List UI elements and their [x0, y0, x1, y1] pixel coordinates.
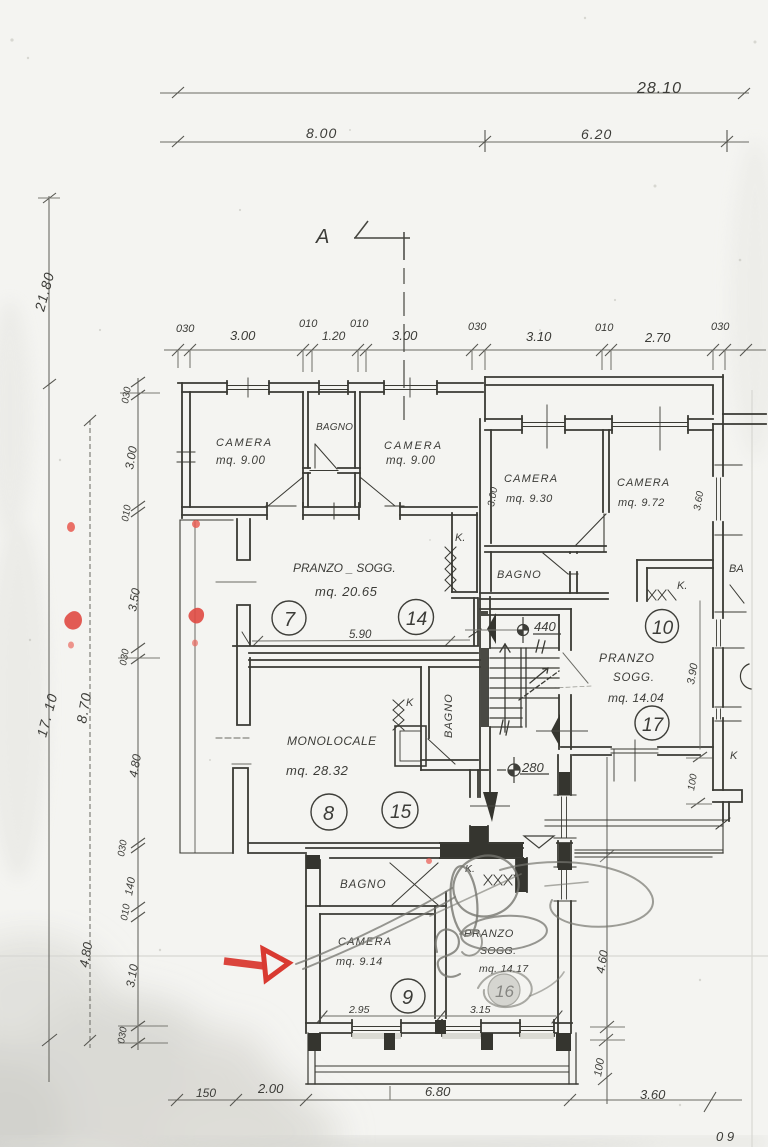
connector dark walls [440, 770, 527, 892]
svg-text:K: K [406, 697, 414, 709]
svg-text:CAMERA: CAMERA [504, 473, 558, 485]
horizontal line through T3 arrow [470, 805, 510, 807]
5.90 internal dimension line [252, 636, 470, 646]
kitchen hatch monolocale [393, 700, 404, 730]
top chain above plan [164, 344, 766, 372]
faint scan fold line [0, 955, 768, 957]
wing terrace [306, 1033, 578, 1084]
pier stairwell west [481, 648, 489, 727]
svg-text:CAMERA: CAMERA [384, 440, 443, 452]
svg-text:mq. 9.14: mq. 9.14 [336, 956, 383, 968]
circled 10 [646, 610, 679, 643]
scribble R glyph [436, 929, 460, 976]
scan noise bottom-left mottle [0, 935, 340, 1147]
svg-text:BAGNO: BAGNO [443, 693, 455, 738]
dark wall piers [306, 611, 572, 1051]
right rooms north wall [485, 405, 713, 450]
svg-text:28.10: 28.10 [636, 80, 682, 97]
svg-text:MONOLOCALE: MONOLOCALE [287, 734, 377, 748]
svg-text:3.00: 3.00 [392, 328, 418, 343]
circled 17 [635, 706, 669, 740]
window right camera [384, 386, 437, 390]
red blob 3 [68, 642, 74, 649]
K hatch pranzo dx [648, 590, 676, 600]
section arrow A [355, 221, 368, 238]
door swing camera 9.72 [576, 514, 606, 551]
right vertical dimension chain 4.60/100 [590, 757, 625, 1104]
dimension line 8.00 / 6.20 [160, 130, 749, 152]
left vertical dimension line 21.80/17.10 [38, 193, 60, 1082]
wing east wall [554, 755, 576, 1033]
scribble long diagonals [296, 888, 455, 969]
svg-text:8: 8 [323, 803, 334, 825]
svg-text:0 9: 0 9 [716, 1129, 734, 1144]
red blob 2 [64, 611, 82, 629]
wing outer west wall [306, 855, 320, 1033]
bagno sx walls [303, 392, 360, 507]
svg-text:mq. 9.72: mq. 9.72 [618, 497, 665, 509]
wing dim tick slashes [317, 1011, 562, 1023]
K hatch pranzo-sogg [445, 547, 456, 591]
landing west wall (right block west wall + stairwell west wall) [480, 419, 491, 797]
left outer wall [177, 383, 195, 518]
svg-text:5.90: 5.90 [349, 629, 372, 641]
camera row bottom wall [182, 503, 477, 519]
scribble loop over 16 [478, 971, 532, 1007]
svg-text:6.80: 6.80 [425, 1084, 451, 1099]
svg-text:mq. 9.00: mq. 9.00 [216, 455, 266, 467]
east outer wall [700, 414, 751, 790]
svg-text:15: 15 [390, 802, 412, 823]
svg-text:2.70: 2.70 [644, 330, 671, 345]
svg-text:mq. 14.17: mq. 14.17 [479, 963, 529, 975]
pranzo dx south wall [561, 740, 713, 781]
red blob 4 [192, 520, 200, 528]
svg-text:mq. 9.30: mq. 9.30 [506, 493, 553, 505]
MAIN WALLS [177, 375, 766, 1084]
svg-text:17: 17 [642, 715, 665, 736]
svg-text:010: 010 [299, 318, 318, 330]
wing bagno door swings [390, 863, 438, 905]
red blob 6 [192, 640, 198, 647]
top-right stub wall to page edge [713, 414, 766, 430]
window shading wing south [352, 1033, 554, 1039]
left vertical detailed chain [118, 377, 168, 1050]
wing divider wall [435, 892, 446, 1018]
left vertical dimension line 8.70/4.80 [84, 415, 96, 1048]
scribble oval upper [444, 846, 528, 926]
svg-text:030: 030 [176, 323, 195, 335]
svg-text:7: 7 [284, 609, 296, 631]
stair black triangles [487, 613, 496, 644]
svg-text:150: 150 [196, 1086, 216, 1100]
circled 15 [382, 792, 418, 828]
svg-text:030: 030 [468, 321, 487, 333]
level marker 440 [465, 617, 561, 643]
faint right page edge line [751, 390, 753, 1147]
svg-text:3.00: 3.00 [230, 328, 256, 343]
balcony west edge [180, 520, 233, 853]
svg-text:030: 030 [711, 321, 730, 333]
circled 14 [399, 600, 434, 635]
wing inner south wall [306, 1016, 572, 1036]
svg-text:9: 9 [402, 987, 413, 1009]
right side wall down to wing [575, 852, 723, 854]
horizontal line through T2 arrow [536, 730, 588, 732]
svg-text:K: K [730, 750, 738, 762]
svg-text:PRANZO _ SOGG.: PRANZO _ SOGG. [293, 561, 396, 575]
red arrow [224, 949, 289, 980]
svg-text:K.: K. [455, 532, 465, 544]
door swing camera dx (left block) [360, 477, 404, 506]
pier connector elbow [470, 826, 488, 844]
svg-text:BAGNO: BAGNO [497, 569, 542, 581]
svg-text:280: 280 [521, 760, 544, 775]
svg-text:6.20: 6.20 [581, 126, 612, 142]
svg-text:BAGNO: BAGNO [316, 422, 353, 433]
svg-text:CAMERA: CAMERA [617, 477, 670, 489]
wing K hatch [484, 875, 522, 885]
kitchen sink box monolocale [395, 726, 426, 766]
window bagno [319, 386, 348, 390]
svg-text:010: 010 [350, 318, 369, 330]
wing bagno south wall [306, 906, 446, 914]
top outer wall left block [178, 378, 483, 397]
camera 9.30 bottom wall [485, 546, 606, 552]
svg-text:SOGG.: SOGG. [613, 672, 655, 684]
scribble extra diagonal [430, 874, 521, 916]
window left camera [227, 386, 269, 390]
red blob 5 [188, 608, 204, 624]
bottom dimension line [168, 1086, 742, 1112]
door swing bagno dx [543, 553, 578, 574]
balcony inner wall (west wall of pranzo/monolocale) [216, 519, 256, 853]
top outer wall right block [485, 375, 723, 421]
stair treads [490, 640, 559, 735]
scribble tail right of 16 [530, 972, 564, 996]
door swing bagno sx [315, 444, 337, 469]
stairwell walls [480, 609, 571, 749]
dimension line 28.10 [160, 87, 750, 99]
svg-text:3.15: 3.15 [470, 1004, 491, 1016]
circled 8 [311, 794, 347, 830]
pranzo-sogg bottom wall [233, 646, 488, 667]
divider between right cameras [603, 430, 609, 512]
svg-text:BA: BA [729, 563, 744, 575]
svg-text:K.: K. [677, 580, 687, 592]
svg-text:PRANZO: PRANZO [599, 651, 655, 665]
svg-text:mq. 14.04: mq. 14.04 [608, 691, 664, 705]
svg-text:1.20: 1.20 [322, 329, 346, 343]
svg-text:CAMERA: CAMERA [216, 437, 273, 449]
svg-text:A: A [315, 226, 329, 248]
monolocale bottom wall [249, 843, 572, 853]
circled 9 [391, 979, 425, 1013]
wing top wall [306, 848, 523, 858]
scribble tall loop [447, 865, 480, 937]
right wall 100 mini chain [686, 752, 712, 808]
svg-text:BAGNO: BAGNO [340, 879, 387, 891]
svg-text:440: 440 [534, 619, 556, 634]
wing corner piers [306, 855, 320, 869]
svg-text:mq. 28.32: mq. 28.32 [286, 763, 349, 778]
svg-text:010: 010 [595, 322, 614, 334]
circled 7 [272, 601, 306, 635]
svg-text:16: 16 [495, 982, 514, 1001]
svg-text:mq. 20.65: mq. 20.65 [315, 584, 378, 599]
kitchen nook pranzo dx [637, 560, 713, 601]
svg-text:3.10: 3.10 [526, 329, 552, 344]
red blob 1 [67, 522, 75, 532]
monolocale east wall / bagno mono [421, 667, 488, 770]
svg-text:2.95: 2.95 [348, 1004, 370, 1016]
door swing bagno monolocale [428, 739, 455, 764]
scribble wall crossing [545, 882, 588, 886]
door swing camera sx [266, 477, 303, 506]
svg-text:8.00: 8.00 [306, 125, 337, 141]
svg-text:10: 10 [652, 618, 674, 639]
open door triangle at entry [524, 836, 554, 848]
red dot wing [426, 858, 432, 864]
bottom right balcony stub [545, 790, 742, 857]
pranzo-sogg east wall and K nook [452, 513, 481, 645]
circled 16 smudged [488, 974, 520, 1006]
door swing stair hall to pranzo dx [563, 653, 588, 683]
svg-text:14: 14 [406, 609, 427, 630]
scribble flat oval around PRANZO [460, 913, 548, 953]
svg-text:mq. 9.00: mq. 9.00 [386, 455, 436, 467]
bagno dx south wall [480, 552, 608, 599]
svg-text:3.60: 3.60 [640, 1087, 666, 1102]
scribble big right sweep [500, 862, 653, 927]
level marker 280 [497, 757, 549, 783]
svg-text:2.00: 2.00 [257, 1081, 284, 1096]
